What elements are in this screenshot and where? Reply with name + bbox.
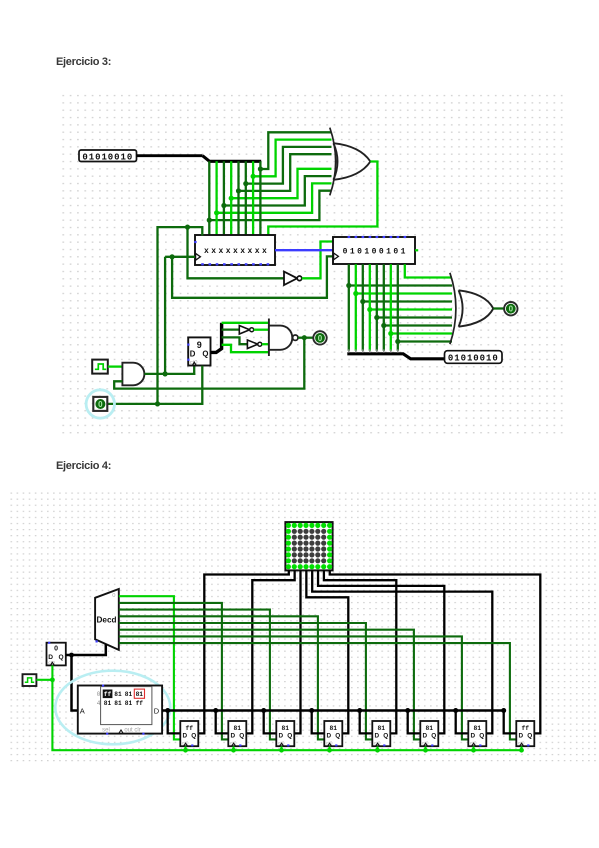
wire bus drop to FF2 D	[216, 711, 229, 734]
output label OUT2 "01010010"	[445, 351, 503, 364]
junction clock FF1	[183, 748, 188, 753]
wire splitter bit 2 vertical to register R1	[223, 161, 225, 235]
wire feedback NAND to AND input	[114, 338, 304, 389]
svg-text:ff: ff	[522, 725, 530, 732]
wire to NOT gate G2 input	[188, 227, 284, 278]
wire clock to R1 clock pin	[165, 256, 195, 258]
wire R2 bit 3 tap to XOR input	[370, 308, 452, 310]
svg-text:Q: Q	[431, 732, 436, 739]
wire clock riser FF1	[184, 746, 186, 750]
wire R1 Q output to R2 (unknown value)	[275, 249, 333, 251]
wire counter Q to RAM address	[72, 655, 78, 711]
svg-text:D: D	[278, 732, 283, 739]
wire decoder output 4 to FF5 enable	[119, 623, 372, 739]
not-gate G6	[247, 340, 261, 349]
register FF4 "81"	[324, 721, 342, 746]
junction node C	[170, 254, 175, 259]
svg-text:0: 0	[54, 646, 58, 653]
wire bus drop to FF4 D	[312, 711, 325, 734]
wire input 0 to R3 reset pin	[108, 366, 203, 404]
junction R2 bit 1	[353, 291, 358, 296]
junction clock FF8	[519, 748, 524, 753]
or-gate G1 (8-input)	[330, 128, 371, 196]
junction on bit 0	[207, 218, 212, 223]
wire decoder output 1 to FF2 enable	[119, 603, 229, 740]
not-gate G5	[239, 326, 253, 335]
wire matrix column 1 to FF Q output	[246, 570, 294, 733]
wire decoder output 3 to FF4 enable	[119, 616, 324, 739]
svg-text:D: D	[422, 732, 427, 739]
junction bus FF3	[261, 708, 266, 713]
svg-text:D: D	[470, 732, 475, 739]
wire bus bit 1 to NOT gate G6	[222, 337, 248, 344]
svg-text:01010010: 01010010	[82, 152, 133, 162]
svg-text:D: D	[48, 654, 53, 661]
junction bus FF6	[405, 708, 410, 713]
decoder U1 "Decd"	[95, 589, 119, 650]
wire NOT output to R2 D input	[302, 242, 333, 279]
svg-text:D: D	[182, 732, 187, 739]
wire bus bit 0 to NAND	[222, 345, 269, 352]
wire bit 5 tap to OR gate input	[246, 147, 332, 184]
junction clock FF6	[423, 748, 428, 753]
wire XOR output	[493, 307, 503, 309]
register FF3 "81"	[276, 721, 294, 746]
svg-text:A: A	[80, 707, 85, 716]
junction R2 bit 5	[381, 323, 386, 328]
junction bus FF4	[309, 708, 314, 713]
junction R2 bit 2	[360, 299, 365, 304]
wire R2 bit 2 vertical to splitter SP2	[362, 264, 364, 351]
junction R2 bit 6	[388, 331, 393, 336]
wire matrix column 4 to FF Q output	[312, 570, 492, 733]
clock CLK1	[92, 360, 108, 374]
svg-text:0: 0	[97, 691, 101, 698]
svg-text:81: 81	[114, 691, 122, 698]
svg-text:Q: Q	[202, 349, 208, 358]
input label IN1 "01010010"	[79, 150, 137, 162]
junction node A	[155, 401, 160, 406]
svg-text:0: 0	[318, 334, 323, 343]
wire R2 bit 0 vertical to splitter SP2	[348, 264, 350, 351]
wire clock riser FF3	[280, 746, 282, 750]
splitter SP2 (merge to bus)	[347, 349, 444, 359]
wire bit 3 tap to OR gate input	[231, 169, 331, 198]
svg-text:Q: Q	[383, 732, 388, 739]
svg-text:D: D	[518, 732, 523, 739]
junction bus FF5	[357, 708, 362, 713]
wire bit 1 tap to OR gate input	[217, 183, 332, 212]
svg-text:Decd: Decd	[97, 616, 117, 625]
wire bit 7 tap to OR gate input	[260, 132, 331, 169]
wire splitter bit 0 vertical to register R1	[208, 161, 210, 235]
wire clock riser FF2	[232, 746, 234, 750]
wire bus drop to FF1 D	[168, 711, 181, 734]
svg-text:Q: Q	[527, 732, 532, 739]
wire splitter bit 3 vertical to register R1	[230, 161, 232, 235]
wire clock vertical B	[164, 257, 166, 374]
wire decoder output 7 to FF8 enable	[119, 643, 517, 739]
wire R2 bit 6 vertical to splitter SP2	[390, 264, 392, 351]
wire G6 output to NAND	[262, 343, 269, 345]
junction on bit 3	[229, 196, 234, 201]
svg-text:ff: ff	[104, 691, 112, 698]
wire R3 Q bus	[211, 323, 222, 353]
wire bus bit 3 to NAND	[222, 322, 269, 324]
wire bus from IN1 to splitter SP1	[137, 154, 203, 157]
svg-text:81: 81	[330, 725, 338, 732]
svg-text:clr: clr	[134, 728, 140, 734]
svg-text:Q: Q	[59, 654, 64, 661]
register FF1 "ff"	[180, 721, 198, 746]
svg-text:81: 81	[104, 700, 112, 707]
wire clock riser FF4	[328, 746, 330, 750]
svg-text:D: D	[154, 707, 160, 716]
register R2 "010100101"	[333, 236, 418, 264]
svg-text:4: 4	[97, 700, 101, 707]
svg-text:0: 0	[112, 593, 115, 599]
output pin OUT1 "0"	[504, 302, 517, 315]
wire R2 bit 3 vertical to splitter SP2	[369, 264, 371, 351]
junction clock FF3	[279, 748, 284, 753]
wire input 0 line to R1 top pin	[158, 227, 203, 404]
wire G5 output to NAND	[254, 329, 269, 331]
and-gate G4	[122, 363, 144, 386]
wire splitter bit 1 vertical to register R1	[215, 161, 217, 235]
register R3 "9"	[187, 337, 210, 366]
wire bit 2 tap to OR gate input	[224, 176, 332, 205]
junction on bit 1	[214, 210, 219, 215]
wire bus bit 2 to NOT gate G5	[222, 328, 240, 330]
wire decoder output 2 to FF3 enable	[119, 610, 276, 740]
junction R2 bit 4	[374, 315, 379, 320]
svg-text:ff: ff	[136, 700, 144, 707]
junction node B	[185, 225, 190, 230]
junction bus FF7	[453, 708, 458, 713]
svg-text:Q: Q	[335, 732, 340, 739]
wire clock distribution to register R2	[172, 256, 333, 297]
wire bus drop to FF7 D	[456, 711, 469, 734]
wire matrix column 5 to FF Q output	[318, 570, 444, 733]
wire splitter bit 4 vertical to register R1	[237, 161, 239, 235]
svg-text:81: 81	[136, 691, 144, 698]
junction R2 bit 3	[367, 307, 372, 312]
svg-text:81: 81	[125, 691, 133, 698]
wire matrix column 2 to FF Q output	[294, 570, 300, 733]
wire matrix column 3 to FF Q output	[306, 570, 348, 733]
wire RAM data bus to FF D inputs	[162, 709, 504, 711]
svg-text:out: out	[124, 728, 133, 734]
wire R2 bit 0 tap to XOR input	[349, 284, 452, 286]
wire R2 bit 5 tap to XOR input	[384, 324, 452, 326]
register FF7 "81"	[468, 721, 486, 746]
wire AND output to register R3 clock	[144, 366, 194, 374]
svg-text:81: 81	[114, 700, 122, 707]
wire R2 bit 1 tap to XOR input	[356, 292, 452, 294]
svg-text:sel: sel	[102, 728, 110, 734]
splitter SP1 (8-bit fanout)	[203, 156, 262, 162]
wire clock riser FF6	[424, 746, 426, 750]
input pin IN2 "0" (selected)	[86, 390, 114, 418]
wire decoder output 0 to FF1 enable	[119, 596, 181, 739]
wire R2 bit 8 to XOR top input	[405, 264, 452, 277]
counter U2	[47, 642, 66, 666]
junction on bit 2	[221, 203, 226, 208]
wire splitter bit 7 vertical to register R1	[259, 161, 261, 235]
wire bus drop to FF6 D	[408, 711, 421, 734]
wire R2 bit 1 vertical to splitter SP2	[355, 264, 357, 351]
junction NAND output	[302, 335, 307, 340]
svg-text:xxxxxxxxx: xxxxxxxxx	[204, 247, 269, 256]
wire bus drop to FF8 D	[504, 711, 517, 734]
wire NAND output to pin OUT3	[298, 337, 314, 339]
wire bus drop to FF5 D	[360, 711, 373, 734]
svg-text:0: 0	[98, 400, 103, 409]
svg-text:81: 81	[474, 725, 482, 732]
wire bit 0 tap to OR gate input	[209, 191, 331, 220]
svg-text:Q: Q	[479, 732, 484, 739]
junction on bit 5	[243, 181, 248, 186]
wire bit 4 tap to OR gate input	[239, 154, 332, 191]
wire R2 bit 2 tap to XOR input	[363, 300, 452, 302]
clock CLK2	[23, 674, 37, 686]
svg-text:81: 81	[234, 725, 242, 732]
wire clock riser FF5	[376, 746, 378, 750]
svg-text:D: D	[230, 732, 235, 739]
register FF5 "81"	[372, 721, 390, 746]
svg-text:Q: Q	[239, 732, 244, 739]
wire bus drop to FF3 D	[264, 711, 277, 734]
nand-gate G7	[269, 319, 298, 357]
led-matrix M1 (8x8)	[285, 522, 332, 570]
junction on AND output	[163, 371, 168, 376]
register R1 "xxxxxxxxx" (shift register)	[194, 235, 275, 265]
wire splitter bit 6 vertical to register R1	[252, 161, 254, 235]
wire CLK2 output	[36, 679, 52, 681]
wire OR output to register R1 pin 9	[268, 162, 377, 236]
svg-text:81: 81	[378, 725, 386, 732]
wire clock to counter	[51, 665, 53, 679]
svg-text:9: 9	[197, 340, 202, 350]
svg-text:D: D	[190, 349, 196, 358]
junction R2 bit 0	[346, 283, 351, 288]
wire matrix column 7 to FF Q output	[330, 570, 541, 733]
junction on bit 4	[236, 188, 241, 193]
rom U3 (selected, with halo)	[55, 671, 170, 745]
svg-text:D: D	[326, 732, 331, 739]
wire matrix column 6 to FF Q output	[324, 570, 396, 733]
svg-text:ff: ff	[186, 725, 194, 732]
svg-text:81: 81	[125, 700, 133, 707]
register FF2 "81"	[228, 721, 246, 746]
output pin OUT3 "0"	[313, 331, 326, 344]
register FF6 "81"	[420, 721, 438, 746]
wire clock riser FF8	[520, 746, 522, 750]
junction clock FF7	[471, 748, 476, 753]
junction bus FF8	[501, 708, 506, 713]
wire decoder output 6 to FF7 enable	[119, 636, 469, 739]
junction R2 bit 7	[395, 339, 400, 344]
junction bus FF2	[213, 708, 218, 713]
svg-text:81: 81	[426, 725, 434, 732]
svg-text:Q: Q	[287, 732, 292, 739]
wire decoder output 5 to FF6 enable	[119, 630, 421, 740]
wire R2 bit 4 tap to XOR input	[377, 316, 452, 318]
wire CLK1 to AND gate	[108, 365, 123, 367]
svg-text:01010010: 01010010	[448, 354, 499, 364]
junction on bit 7	[258, 166, 263, 171]
wire splitter bit 5 vertical to register R1	[245, 161, 247, 235]
wire clock distribution line	[52, 680, 521, 750]
junction clock node	[50, 677, 55, 682]
junction on bit 6	[251, 174, 256, 179]
junction clock FF5	[375, 748, 380, 753]
svg-text:0: 0	[509, 305, 514, 314]
svg-text:81: 81	[282, 725, 290, 732]
wire bit 6 tap to OR gate input	[253, 140, 331, 177]
wire R2 bit 4 vertical to splitter SP2	[376, 264, 378, 351]
wire matrix column 0 to FF Q output	[198, 570, 288, 733]
xor-gate G3 (9-input)	[450, 273, 493, 344]
svg-text:Q: Q	[191, 732, 196, 739]
junction clock FF4	[327, 748, 332, 753]
wire counter Q to decoder select	[66, 644, 106, 655]
junction clock FF2	[231, 748, 236, 753]
junction bus FF1	[165, 708, 170, 713]
wire R2 bit 5 vertical to splitter SP2	[383, 264, 385, 351]
wire R2 bit 6 tap to XOR input	[391, 332, 452, 334]
register FF8 "ff"	[516, 721, 534, 746]
wire clock riser FF7	[472, 746, 474, 750]
svg-text:D: D	[374, 732, 379, 739]
wire R2 bit 7 vertical to splitter SP2	[397, 264, 399, 351]
junction counter output	[69, 653, 74, 658]
wire R2 bit 7 tap to XOR input	[398, 340, 452, 342]
svg-text:010100101: 010100101	[343, 248, 408, 257]
not-gate G2	[284, 272, 302, 285]
